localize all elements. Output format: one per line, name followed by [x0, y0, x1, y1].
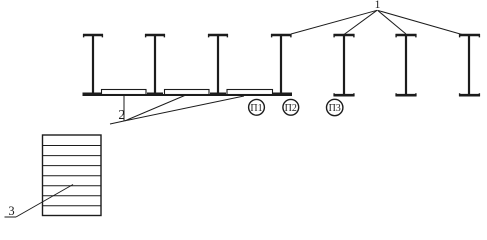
leader from 2 to tie plate P2 — [125, 95, 187, 121]
svg-text:1: 1 — [375, 0, 381, 11]
leader from 2 to tie plate P1 (vertical) — [123, 95, 125, 121]
rail R7 (free-standing, rightmost) — [459, 34, 480, 96]
leader tail left of label 2 — [110, 121, 125, 124]
leader tail under label 3 — [5, 216, 17, 218]
circle node П3 — [327, 99, 343, 115]
svg-text:3: 3 — [8, 204, 14, 218]
leader from 1 to rail R4 — [291, 10, 377, 34]
tie plate P3 — [227, 90, 273, 95]
sleeper stack (pile of boards) — [43, 135, 102, 216]
leader from 1 to rail R6 — [378, 10, 407, 34]
leader from 3 into sleeper stack — [16, 185, 73, 218]
tie plate P1 — [102, 90, 147, 95]
svg-text:П3: П3 — [329, 103, 341, 114]
rail R3 (on base line) — [208, 34, 228, 95]
tie plate P2 — [165, 90, 210, 95]
rail R2 (on base line) — [145, 34, 165, 95]
rail R5 (free-standing) — [334, 34, 355, 96]
circle node П1 — [249, 99, 265, 115]
leader from 2 to tie plate P3 — [125, 96, 244, 121]
svg-text:П2: П2 — [285, 103, 297, 114]
rail R1 (leftmost, on base line) — [83, 34, 104, 95]
svg-text:П1: П1 — [250, 103, 262, 114]
rail R6 (free-standing) — [396, 34, 417, 96]
rail R4 (rightmost of left group, on base line) — [271, 34, 292, 95]
leader from 1 to rail R5 — [344, 10, 377, 34]
base line under left rail group — [83, 94, 293, 96]
leader from 1 to rail R7 — [378, 10, 463, 34]
circle node П2 — [283, 99, 299, 115]
